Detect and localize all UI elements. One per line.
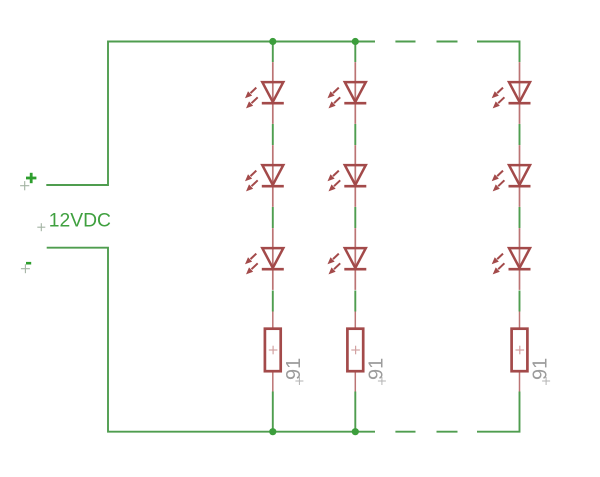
- svg-text:12VDC: 12VDC: [49, 211, 111, 232]
